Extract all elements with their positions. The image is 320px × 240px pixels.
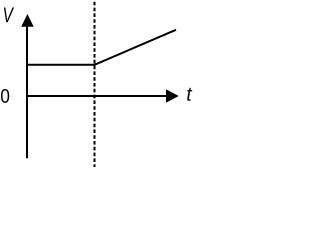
label 0 (origin) bbox=[1, 89, 9, 103]
t axis (horizontal axis line) bbox=[26, 95, 168, 97]
V axis (vertical axis line) bbox=[26, 20, 28, 158]
signal ramp segment (rising V) bbox=[95, 30, 177, 65]
t axis arrowhead bbox=[166, 89, 179, 103]
dashed vertical line (time marker) bbox=[94, 2, 96, 167]
label t bbox=[187, 88, 192, 101]
signal flat segment (constant V) bbox=[27, 64, 96, 66]
label V bbox=[4, 8, 14, 23]
V axis arrowhead bbox=[21, 14, 34, 27]
